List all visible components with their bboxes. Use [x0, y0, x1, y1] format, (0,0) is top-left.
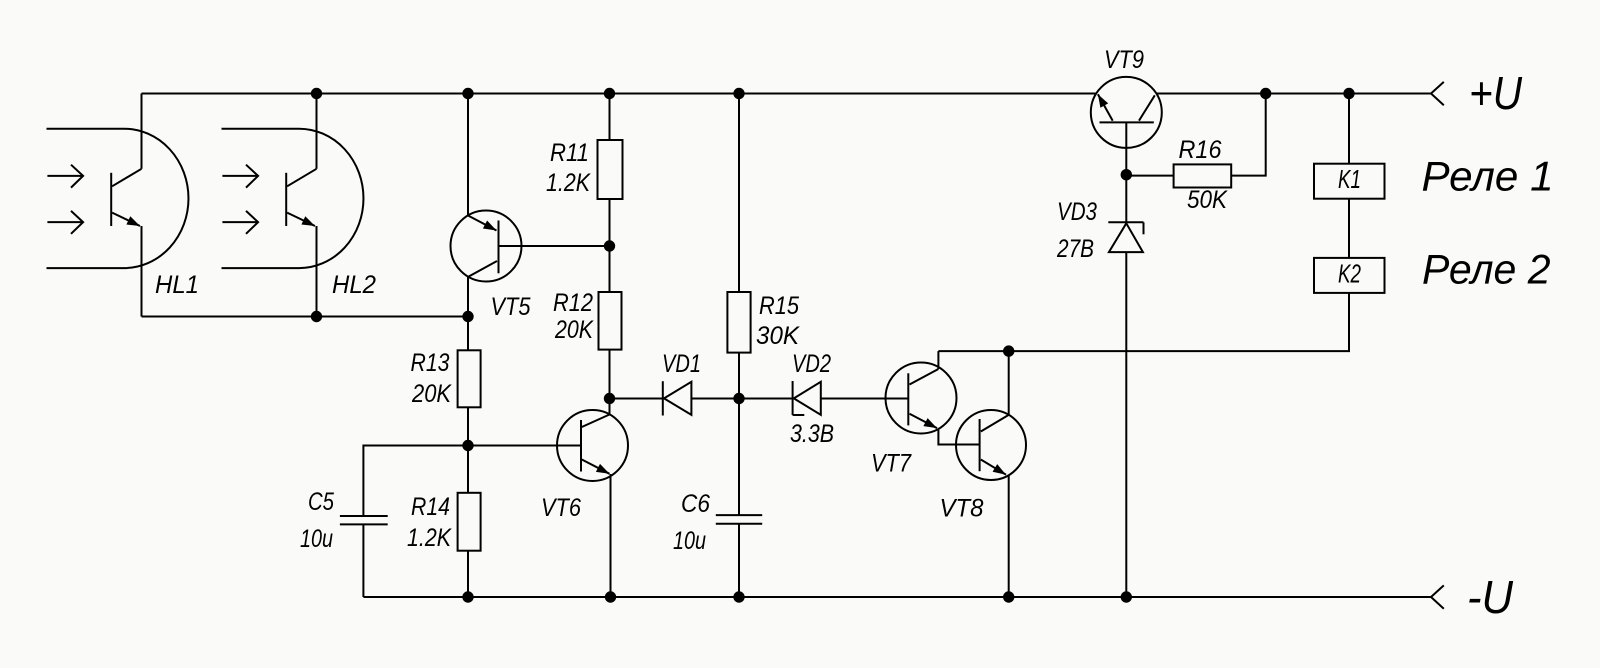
label R15 value 30K: [756, 292, 800, 350]
wire VT7 emitter stub to VT8 base: [938, 429, 979, 445]
svg-text:K2: K2: [1338, 259, 1361, 289]
wire R12 top lead: [609, 246, 611, 292]
svg-text:R16: R16: [1179, 136, 1222, 164]
junction node R11/R12/VT5-base: [604, 240, 615, 251]
wire R16 left lead: [1126, 175, 1173, 177]
svg-text:3.3B: 3.3B: [790, 420, 834, 448]
wire collectors to relay K2 return: [938, 293, 1349, 351]
terminal chevron -U: [1431, 585, 1444, 608]
wire K1 to K2: [1348, 199, 1350, 258]
svg-text:R15: R15: [759, 292, 799, 320]
svg-text:1.2K: 1.2K: [546, 169, 591, 197]
zener diode VD2 3.3V: [793, 381, 821, 415]
wire HL2 emitter down: [316, 226, 318, 317]
label HL1: [155, 271, 199, 299]
wire R16 right lead up to +U rail: [1231, 94, 1266, 176]
wire R11 bottom lead: [609, 199, 611, 246]
svg-text:VT7: VT7: [871, 450, 912, 478]
wire VD2 cathode to node: [739, 398, 793, 400]
wire R12 bottom lead: [609, 350, 611, 399]
svg-text:10u: 10u: [673, 527, 706, 555]
resistor R12: [599, 292, 622, 350]
transistor VT9 (PNP pass): [1091, 77, 1162, 148]
wire R13 top lead: [467, 317, 469, 351]
junction node K1 top rail: [1343, 88, 1354, 99]
wire R15 top lead to +U rail: [738, 94, 740, 293]
relay coil K1: [1314, 164, 1385, 199]
zener diode VD3 27V: [1108, 222, 1143, 252]
wire R14 bottom lead: [467, 551, 469, 597]
svg-text:-U: -U: [1467, 571, 1514, 623]
junction node VT9 base / R16 / VD3: [1121, 169, 1132, 180]
svg-text:VT8: VT8: [940, 495, 984, 523]
optocoupler phototransistor HL2: [222, 129, 364, 268]
junction node VT6 emitter bottom rail: [605, 591, 616, 602]
wire -U bottom rail: [363, 596, 1431, 598]
junction node R13/R14/C5/VT6-base: [462, 440, 473, 451]
wire C5 bottom lead to -U rail: [362, 524, 364, 597]
label VT8: [940, 495, 984, 523]
svg-text:VT6: VT6: [541, 494, 581, 522]
wire R14 top lead: [467, 446, 469, 493]
label VD2 value 3.3B: [790, 350, 834, 448]
label Реле 2: [1422, 246, 1551, 293]
wire VT6 collector up to node: [609, 399, 611, 415]
relay coil K2: [1314, 258, 1385, 293]
wire VT8 emitter to -U rail: [1008, 476, 1010, 598]
wire VT5 collector down: [467, 277, 469, 317]
label R13 value 20K: [411, 349, 453, 408]
label VT6: [541, 494, 581, 522]
svg-text:VT5: VT5: [491, 293, 531, 321]
resistor R15: [727, 292, 750, 353]
wire VT6 base from R13/R14 node: [468, 445, 581, 447]
capacitor C5: [340, 516, 388, 524]
wire R11 top lead: [609, 94, 611, 141]
wire VD1 anode to R15 node: [691, 398, 739, 400]
junction node VD3 bottom rail: [1121, 591, 1132, 602]
junction node HL2 top rail: [311, 88, 322, 99]
wire C6 bottom lead: [738, 524, 740, 597]
svg-text:VD1: VD1: [662, 350, 701, 378]
wire C6 top lead: [738, 399, 740, 516]
wire HL1 emitter down: [141, 226, 143, 317]
wire +U top rail left segment: [142, 93, 1097, 95]
svg-text:HL1: HL1: [155, 271, 199, 299]
wire VT5 emitter to +U rail: [467, 94, 469, 216]
resistor R13: [458, 350, 481, 407]
junction node R11 top rail: [604, 88, 615, 99]
svg-text:R14: R14: [411, 493, 450, 521]
label R12 value 20K: [553, 289, 594, 344]
svg-text:R13: R13: [411, 349, 450, 377]
resistor R11: [598, 140, 623, 199]
svg-text:Реле 1: Реле 1: [1422, 153, 1554, 200]
label Реле 1: [1422, 153, 1554, 200]
net label +U: [1469, 67, 1523, 119]
junction node C6 bottom rail: [733, 591, 744, 602]
label R16 value 50K: [1179, 136, 1229, 214]
label VT5: [491, 293, 531, 321]
junction node VT8 emitter bottom rail: [1003, 591, 1014, 602]
svg-text:R12: R12: [553, 289, 593, 317]
label HL2: [332, 271, 376, 299]
svg-text:C6: C6: [681, 490, 710, 518]
transistor VT7 (NPN): [886, 363, 957, 434]
wire VT8 collector up to node: [1008, 351, 1010, 415]
junction node VT5 collector / R13: [462, 311, 473, 322]
svg-text:VD2: VD2: [792, 350, 831, 378]
wire HL2 collector to +U rail: [316, 94, 318, 169]
svg-text:27B: 27B: [1056, 235, 1094, 263]
capacitor C6: [716, 515, 762, 524]
svg-text:HL2: HL2: [332, 271, 376, 299]
junction node R12/VT6-collector/VD1: [604, 393, 615, 404]
svg-text:R11: R11: [550, 139, 589, 167]
wire HL1 collector to +U rail: [141, 94, 143, 169]
wire R13 bottom lead: [467, 407, 469, 445]
svg-text:VD3: VD3: [1057, 198, 1097, 226]
svg-text:20K: 20K: [411, 380, 452, 408]
junction node R15 top rail: [733, 88, 744, 99]
resistor R16: [1174, 164, 1232, 187]
label C5 value 10u: [300, 488, 334, 553]
wire VT7 collector stub up: [937, 351, 939, 369]
svg-text:30K: 30K: [756, 322, 800, 350]
junction node VT7/VT8 collectors: [1003, 345, 1014, 356]
wire HL emitters to R13 node: [142, 316, 469, 318]
wire +U top rail right segment: [1157, 93, 1432, 95]
label VT7: [871, 450, 912, 478]
wire C5 top lead to node: [363, 446, 468, 517]
junction node R14 bottom rail: [462, 591, 473, 602]
svg-text:C5: C5: [308, 488, 334, 516]
svg-text:20K: 20K: [554, 316, 594, 344]
optocoupler phototransistor HL1: [47, 129, 189, 268]
svg-text:50K: 50K: [1187, 186, 1228, 214]
terminal chevron +U: [1431, 82, 1444, 105]
label VT9: [1104, 46, 1144, 74]
junction node HL2 emitter bottom: [311, 311, 322, 322]
junction node VT5 top rail: [462, 88, 473, 99]
wire VD1 cathode to node: [610, 398, 663, 400]
label R11 value 1.2K: [546, 139, 591, 197]
svg-text:K1: K1: [1338, 164, 1361, 194]
wire VD3 anode to -U rail: [1125, 252, 1127, 597]
wire K1 top lead to +U rail: [1348, 94, 1350, 164]
junction node R16 top rail: [1260, 88, 1271, 99]
label R14 value 1.2K: [407, 493, 452, 552]
net label -U: [1467, 571, 1514, 623]
resistor R14: [458, 493, 481, 551]
svg-text:1.2K: 1.2K: [407, 524, 452, 552]
label VD1: [662, 350, 701, 378]
label VD3 value 27B: [1056, 198, 1097, 263]
svg-text:Реле 2: Реле 2: [1422, 246, 1551, 293]
svg-text:VT9: VT9: [1104, 46, 1144, 74]
wire VD2 anode to VT7 base: [821, 398, 909, 400]
wire VT9 base down to R16 node: [1125, 122, 1127, 174]
wire VD3 cathode up: [1125, 175, 1127, 223]
transistor VT8 (NPN): [956, 410, 1026, 480]
diode VD1: [663, 381, 692, 415]
wire VT6 emitter to -U rail: [610, 474, 612, 597]
transistor VT6 (NPN): [557, 410, 628, 481]
svg-text:+U: +U: [1469, 67, 1523, 119]
svg-text:10u: 10u: [300, 525, 333, 553]
wire VT5 base to R11/R12 node: [499, 245, 610, 247]
wire R15 bottom lead: [738, 353, 740, 399]
label C6 value 10u: [673, 490, 710, 555]
junction node R15/VD1/VD2/C6: [733, 393, 744, 404]
transistor VT5 (PNP): [451, 211, 522, 282]
